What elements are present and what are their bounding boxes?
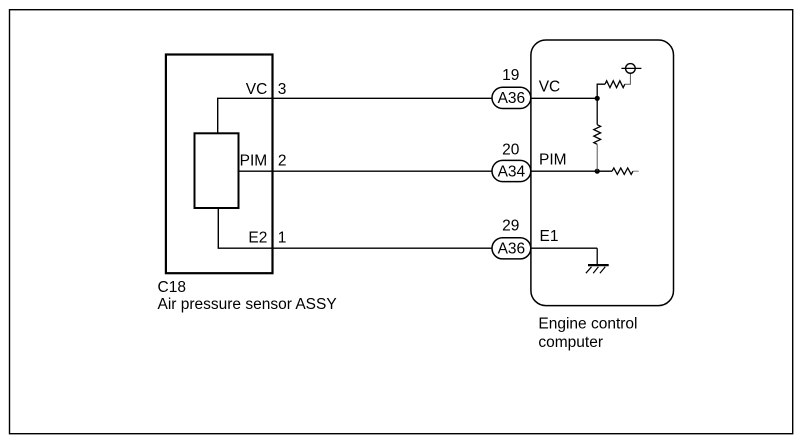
resistor pull-up to B+ (605, 81, 625, 88)
junction node PIM (595, 169, 600, 174)
svg-text:19: 19 (502, 67, 519, 84)
ECU box Engine control computer (531, 40, 674, 306)
svg-text:VC: VC (246, 81, 268, 98)
junction node VC (595, 96, 600, 101)
wire resistor to power symbol (625, 73, 631, 84)
svg-text:Engine control: Engine control (538, 316, 637, 333)
svg-text:PIM: PIM (240, 152, 268, 169)
svg-text:1: 1 (278, 230, 287, 247)
svg-text:PIM: PIM (539, 152, 567, 169)
ground (586, 265, 609, 273)
power symbol B+ (621, 64, 641, 74)
wire E2 sensor to connector A36 (218, 208, 492, 248)
svg-text:29: 29 (502, 217, 519, 234)
svg-text:VC: VC (539, 79, 561, 96)
connector oval A36 pin 19 (492, 87, 531, 108)
wire PIM inside ECU (531, 170, 597, 172)
connector oval A36 pin 29 (492, 238, 531, 259)
svg-text:Air pressure sensor ASSY: Air pressure sensor ASSY (158, 296, 337, 313)
wire PIM junction to series resistor (597, 170, 612, 172)
resistor PIM series (612, 168, 633, 174)
svg-text:20: 20 (502, 141, 520, 158)
wire VC sensor to connector A36 (218, 98, 492, 133)
wire VC junction to pull-up resistor (597, 84, 605, 98)
wire E1 to ground (596, 248, 598, 265)
wire E1 inside ECU (531, 247, 597, 249)
connector C18 box (166, 55, 273, 274)
wire PIM sensor to connector A34 (239, 170, 493, 172)
resistor VC to PIM (594, 125, 601, 145)
air pressure sensor element (195, 133, 239, 208)
svg-text:E1: E1 (540, 228, 559, 245)
connector oval A34 pin 20 (492, 160, 531, 181)
svg-text:C18: C18 (158, 279, 186, 296)
svg-text:A36: A36 (498, 90, 526, 107)
wire vertical resistor to PIM junction (596, 144, 598, 171)
svg-text:2: 2 (278, 152, 287, 169)
svg-text:3: 3 (278, 81, 287, 98)
svg-text:A36: A36 (498, 241, 526, 258)
svg-text:A34: A34 (498, 163, 526, 180)
svg-text:E2: E2 (248, 230, 267, 247)
wire VC inside ECU (531, 97, 597, 99)
svg-text:computer: computer (538, 334, 603, 351)
wire VC junction to vertical resistor (596, 98, 598, 124)
wire PIM resistor tail (633, 170, 639, 172)
